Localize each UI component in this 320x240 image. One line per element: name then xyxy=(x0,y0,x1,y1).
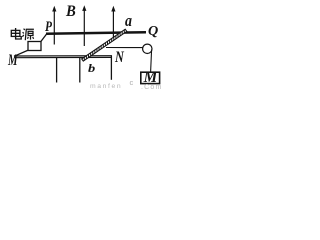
B field arrow 1 head xyxy=(52,6,56,12)
label b xyxy=(88,62,95,74)
pulley Q wheel xyxy=(143,44,152,53)
watermark .Com xyxy=(141,84,163,91)
rod ab (hatched) xyxy=(82,29,127,61)
label M rail end xyxy=(8,53,18,68)
B field arrow 2 shaft xyxy=(83,9,85,46)
label N xyxy=(115,50,124,65)
label Q xyxy=(148,24,158,38)
label a xyxy=(125,12,132,29)
bottom rail lower line xyxy=(14,56,112,58)
character 源 of 电源 xyxy=(22,29,34,41)
power source box 电源 xyxy=(28,42,41,51)
B field arrow 3 head xyxy=(111,6,115,12)
watermark fragment c xyxy=(130,78,134,87)
B field arrow 2 head xyxy=(82,5,86,11)
string from pulley down to weight xyxy=(151,50,152,73)
table right edge under N xyxy=(110,56,112,80)
B field arrow 1 shaft xyxy=(53,9,55,45)
B field arrow 3 shaft xyxy=(112,9,114,41)
bottom rail MN (double line) xyxy=(14,55,112,57)
label M on weight xyxy=(144,70,158,85)
rod ab hatching xyxy=(84,30,124,61)
top rail PQ xyxy=(46,32,146,34)
table leg 2 xyxy=(79,58,81,83)
character 电 of 电源 xyxy=(11,28,21,39)
watermark text xyxy=(90,83,122,90)
table leg 1 xyxy=(56,58,58,83)
wire from source box to P xyxy=(41,34,47,42)
hanging weight box M xyxy=(141,72,160,83)
string from rod to pulley xyxy=(106,47,145,49)
label B xyxy=(66,4,76,20)
label P xyxy=(45,20,52,35)
wire from source box to M xyxy=(14,50,29,56)
